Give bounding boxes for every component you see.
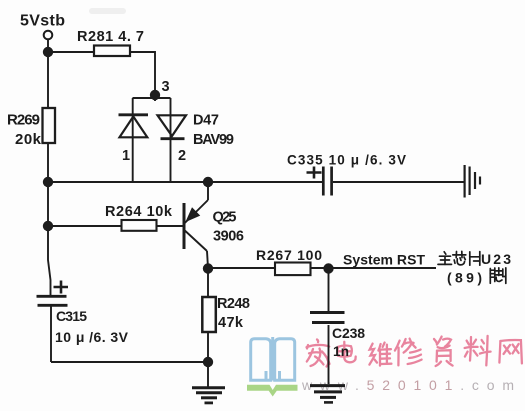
watermark text 维	[369, 343, 391, 366]
junction node C	[43, 221, 53, 231]
svg-text:1n: 1n	[333, 344, 349, 359]
wire Q25 emitter vertical	[207, 182, 209, 200]
svg-text:System RST: System RST	[343, 252, 425, 268]
ground under C238	[310, 386, 345, 403]
resistor R281	[94, 46, 130, 57]
wire R267 to System RST	[311, 267, 436, 269]
wire node C to C315	[48, 226, 51, 296]
wire node D to R267	[208, 267, 275, 269]
resistor R269	[43, 108, 56, 143]
svg-text:R281 4. 7: R281 4. 7	[77, 29, 144, 45]
watermark text 网	[499, 340, 522, 363]
wire Q25 emitter diagonal	[185, 200, 208, 223]
svg-text:2: 2	[178, 148, 186, 164]
svg-text:R269: R269	[7, 112, 40, 129]
diode D47 half 1 cathode bar	[119, 113, 149, 116]
junction node A	[43, 47, 53, 57]
svg-text:R267 100: R267 100	[256, 247, 322, 263]
label 脚 (pin)	[490, 268, 506, 284]
wire node B to node C	[47, 182, 49, 226]
svg-text:D47: D47	[193, 113, 219, 129]
wire C315 to bottom rail	[50, 305, 52, 362]
capacitor C315 minus plate	[38, 304, 68, 307]
faint smudge	[89, 8, 126, 14]
wire node G to ground	[207, 362, 209, 387]
diode D47 half 2 triangle	[158, 115, 187, 136]
svg-text:47k: 47k	[218, 315, 244, 331]
watermark text 料	[465, 336, 491, 366]
svg-text:U23: U23	[481, 251, 511, 267]
watermark logo book	[251, 337, 295, 381]
capacitor C335 plus sign	[307, 167, 322, 179]
capacitor C315 plus plate	[37, 295, 67, 298]
diode D47 half 2 cathode bar	[161, 137, 185, 140]
junction node B	[43, 177, 53, 187]
svg-text:5Vstb: 5Vstb	[20, 13, 65, 30]
svg-text:R264 10k: R264 10k	[105, 204, 173, 220]
junction node 3	[150, 90, 160, 100]
capacitor C335 right plate	[330, 167, 333, 196]
label 主芯片 (main chip)	[438, 251, 480, 265]
transistor Q25 base bar	[183, 203, 186, 249]
wire D47 pin2 down	[170, 98, 172, 182]
capacitor C238 top plate	[310, 311, 345, 314]
svg-text:R248: R248	[217, 296, 250, 312]
svg-text:3906: 3906	[213, 229, 244, 245]
terminal 5Vstb	[44, 31, 53, 40]
wire node A to R269	[47, 52, 49, 108]
capacitor C238 bottom plate	[312, 321, 345, 324]
junction node RST	[323, 263, 333, 273]
wire node D to R248	[207, 268, 209, 297]
wire Q25 collector diagonal	[185, 231, 207, 252]
svg-text:1: 1	[122, 148, 130, 164]
watermark logo ribbon	[247, 385, 298, 397]
resistor R248	[202, 297, 216, 332]
wire bottom rail	[51, 361, 208, 363]
svg-text:C238: C238	[332, 325, 365, 341]
diode D47 half 1 triangle	[120, 117, 148, 138]
junction node E emitter	[203, 177, 213, 187]
svg-text:Q25: Q25	[213, 210, 237, 226]
wire R264 to Q25 base	[157, 225, 184, 227]
wire node C to R264	[48, 225, 122, 227]
watermark text 电	[337, 342, 355, 363]
junction node G	[203, 357, 213, 367]
wire node E to C238	[328, 268, 330, 311]
wire C335 to ground	[333, 181, 464, 183]
wire R248 to node G	[207, 332, 209, 362]
resistor R264	[122, 220, 157, 231]
wire C238 to ground	[328, 325, 330, 384]
wire node A to R281	[48, 51, 94, 53]
wire main horizontal net	[48, 181, 322, 183]
wire R281 to corner	[130, 52, 155, 95]
junction node D collector	[203, 263, 213, 273]
wire D47 pin1 down	[132, 98, 134, 182]
wire R269 to node B	[47, 143, 49, 182]
wire terminal to node A	[47, 40, 49, 53]
svg-text:C335 10 μ /6. 3V: C335 10 μ /6. 3V	[287, 153, 406, 168]
ground right rotated	[465, 165, 480, 198]
ground under R248	[192, 388, 225, 403]
wire diode bridge	[133, 97, 171, 99]
svg-text:10 μ /6. 3V: 10 μ /6. 3V	[55, 329, 129, 345]
watermark text 家	[307, 340, 330, 367]
wire Q25 collector vertical	[207, 251, 208, 268]
capacitor C315 plus sign	[54, 281, 69, 294]
svg-text:BAV99: BAV99	[193, 132, 234, 148]
transistor Q25 emitter arrow	[187, 208, 200, 221]
svg-text:C315: C315	[56, 308, 87, 324]
watermark text 修	[395, 339, 422, 366]
svg-text:3: 3	[162, 79, 170, 95]
capacitor C335 left plate	[322, 167, 325, 196]
svg-text:20k: 20k	[15, 131, 42, 148]
wire node 3 stub	[154, 95, 156, 101]
resistor R267	[275, 263, 311, 276]
watermark text 资	[434, 337, 453, 366]
